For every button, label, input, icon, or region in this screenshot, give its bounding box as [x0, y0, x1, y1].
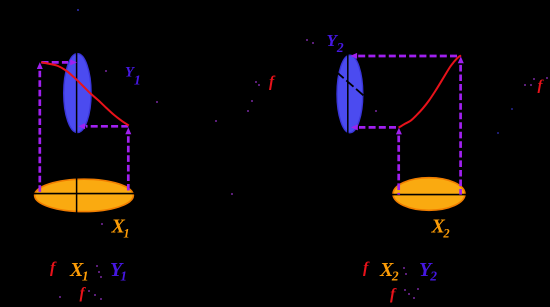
- arrowhead up at (398.7,126.8): [396, 128, 402, 135]
- wire: dashed vertical from x-axis up, left end of X1: [38, 71, 41, 194]
- wire: dashed horizontal bottom to y-axis at y=125.4: [86, 125, 128, 128]
- orange domain ellipse X1: [35, 179, 134, 211]
- x-axis (left): [30, 193, 140, 195]
- wire: dashed horizontal to y-axis at y=62: [42, 61, 69, 64]
- arrowhead left at (351,127.7): [351, 124, 358, 130]
- arrowhead left at (350.3,56): [350, 53, 357, 59]
- blue range ellipse Y2: [337, 55, 363, 133]
- arrowhead up at (128.3,127.2): [125, 127, 131, 134]
- black dashed diagonal through Y2: [331, 67, 366, 97]
- arrowhead up at (39.8,61.7): [37, 62, 43, 69]
- wire: dashed horizontal top to y-axis at y=56: [358, 55, 457, 58]
- y-axis (left): [76, 34, 78, 214]
- wire: dashed vertical right end of X1: [127, 136, 130, 193]
- red curve f (left, decreasing): [41, 62, 129, 125]
- arrowhead left at (78.3,125.4): [78, 123, 85, 129]
- wire: dashed horizontal bottom to y-axis at y=127.7: [359, 126, 396, 129]
- red curve f (right, increasing): [399, 55, 461, 127]
- wire: dashed vertical left end of X2: [397, 136, 400, 195]
- y-axis (right): [347, 34, 349, 193]
- arrowhead right at (76.5,62.1): [70, 59, 77, 65]
- blue range ellipse Y1: [64, 54, 91, 133]
- x-axis (right): [388, 194, 470, 196]
- orange domain ellipse X2: [393, 178, 465, 211]
- wire: dashed vertical right end of X2: [459, 65, 462, 195]
- arrowhead up at (460.6,56.6): [458, 56, 464, 63]
